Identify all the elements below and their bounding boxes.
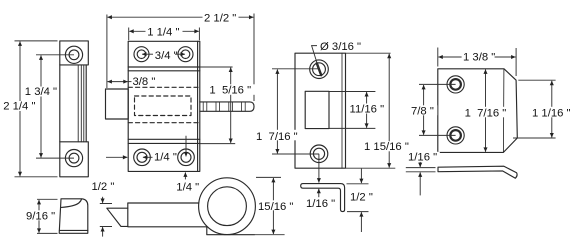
svg-text:1 5/16 ": 1 5/16 "	[209, 84, 251, 96]
label 7/8	[410, 105, 438, 115]
C wedge outline	[59, 199, 88, 234]
label 1 3/8	[462, 52, 495, 62]
E rectangular bolt hole	[305, 91, 329, 128]
E top screw hole with slot	[310, 60, 329, 79]
svg-text:1 3/8 ": 1 3/8 "	[463, 51, 495, 63]
view C: wedge knob side view (bottom left)	[59, 199, 88, 234]
svg-text:9/16 ": 9/16 "	[26, 211, 55, 223]
D slide plate	[128, 203, 207, 227]
svg-text:1 3/4 ": 1 3/4 "	[25, 86, 57, 98]
label 1/2 bracket	[349, 191, 373, 201]
dim 1 3/8 line	[438, 56, 515, 58]
svg-text:1/16 ": 1/16 "	[306, 198, 335, 210]
label 3/4	[154, 50, 176, 60]
B bottom plate divider (double line)	[128, 139, 200, 143]
D ring flat bottom	[207, 227, 255, 235]
label 1 7/16 right	[463, 107, 509, 118]
label 1 1/4	[146, 26, 183, 37]
view E: strike plate front view (middle right)	[295, 53, 346, 168]
F bracket outline	[301, 184, 345, 212]
dim 1 15/16 ext lines	[346, 53, 396, 168]
svg-text:1/16 ": 1/16 "	[408, 151, 437, 163]
C wedge face curve	[61, 199, 81, 208]
B right inner edge line	[197, 41, 199, 171]
dim 1 3/8 ext lines	[438, 48, 516, 77]
dim 1/2 (bracket) bottom ext	[347, 211, 369, 213]
B body outline	[128, 41, 200, 171]
label 3/8	[132, 77, 155, 87]
E plate outline	[295, 53, 346, 168]
dim Ø3/16 leader	[312, 46, 319, 69]
svg-text:3/8 ": 3/8 "	[133, 76, 156, 88]
dim 1/4 (bottom) inner arrow through hole	[185, 136, 187, 157]
dim 2 1/2 ext lines	[107, 14, 254, 102]
svg-text:7/8 ": 7/8 "	[411, 106, 434, 118]
G thin keeper bar side view	[438, 166, 517, 178]
B hidden channel dashed lines	[128, 86, 200, 88]
dim 1/4 (edge to hole) outer arrow	[106, 156, 127, 158]
B top-right screw hole	[178, 47, 193, 62]
svg-text:1 15/16 ": 1 15/16 "	[364, 141, 409, 153]
dim 2 1/4 line	[19, 42, 21, 177]
B bottom-left screw hole	[134, 149, 151, 166]
dim 3/8 line	[108, 81, 128, 83]
dim 1 15/16 line	[388, 54, 390, 168]
svg-text:3/4 ": 3/4 "	[155, 50, 178, 62]
label 1/16 bar	[407, 152, 440, 162]
svg-text:1/4 ": 1/4 "	[176, 182, 199, 194]
label 1/2 bolt	[90, 181, 114, 191]
dim 15/16 line	[272, 178, 274, 234]
B bolt knurl ticks	[203, 102, 245, 111]
G plate outline	[438, 69, 518, 153]
C wedge base line	[59, 229, 87, 231]
label 1 5/16	[208, 84, 255, 95]
svg-text:1 1/16 ": 1 1/16 "	[532, 107, 571, 119]
dim 1/2 (bracket) top ext	[347, 183, 369, 185]
dim 7/8 leaders	[419, 84, 456, 135]
label 1 15/16	[363, 141, 412, 151]
G plate bend line	[502, 69, 505, 152]
view G: keeper plate 3D view (far right)	[438, 69, 518, 178]
label 2 1/4	[2, 101, 37, 111]
dim 9/16 line	[38, 200, 40, 233]
svg-text:2 1/4 ": 2 1/4 "	[3, 101, 35, 113]
A bottom screw hole	[65, 150, 82, 167]
dim 11/16 ext lines	[330, 92, 376, 129]
B hidden slide dashed rectangle	[135, 96, 192, 116]
dim 1 3/4 leaders	[36, 55, 74, 158]
dim 1 1/16 ext lines	[513, 80, 556, 138]
dim 2 1/4 ext lines	[15, 41, 58, 177]
A bottom block top edge	[60, 141, 86, 143]
dim 2 1/2 line	[108, 16, 254, 18]
label 1/16 bracket	[305, 198, 335, 208]
svg-text:11/16 ": 11/16 "	[350, 103, 385, 115]
A channel line 2	[80, 65, 82, 142]
dim 1/16 (bar) arrows	[419, 162, 421, 167]
dim 1/4 (edge to hole) inner arrow	[143, 156, 153, 158]
view F: angle bracket keeper (below strike plate)	[301, 184, 345, 212]
G top hole	[447, 76, 464, 93]
dim 11/16 line	[366, 92, 368, 128]
dim 1 5/16 leaders	[200, 67, 235, 144]
dim 1/2 (bolt) arrows	[102, 197, 104, 203]
label 1 1/16	[531, 107, 574, 118]
E plate bend line	[341, 53, 343, 168]
dim 1/16 (bracket) lower arrow	[318, 189, 320, 197]
dim 3/4 arrows to top holes	[142, 53, 153, 55]
A top screw hole	[65, 46, 82, 63]
view D: bolt slide side view with ring (bottom middle)	[107, 178, 256, 235]
view A: side elevation of latch body (left bar)	[60, 41, 89, 177]
svg-text:15/16 ": 15/16 "	[258, 201, 293, 213]
D chisel rod tip	[107, 208, 128, 226]
view B: front view of latch body	[106, 41, 255, 171]
dim 1/2 (bracket) upper arrow	[360, 169, 362, 184]
label 1/4 mid	[153, 152, 176, 162]
dim 1 1/4 ext lines	[129, 28, 200, 41]
svg-text:1/4 ": 1/4 "	[154, 151, 177, 163]
B bolt (right, knurled)	[200, 102, 254, 111]
A top block bottom edge	[60, 64, 86, 66]
dim 9/16 ext lines	[37, 199, 58, 233]
B top plate divider (double line)	[128, 67, 200, 71]
svg-text:2 1/2 ": 2 1/2 "	[204, 12, 236, 24]
dim 1 7/16 (plate) line	[276, 69, 278, 153]
dim 1/16 (bracket) upper arrow from plate	[318, 154, 320, 183]
dim 1/4 (bottom) outer arrow	[184, 172, 186, 179]
E bottom screw hole	[310, 145, 328, 163]
label 2 1/2	[203, 12, 239, 22]
label 15/16	[257, 200, 293, 210]
svg-text:1 1/4 ": 1 1/4 "	[147, 26, 179, 38]
svg-text:Ø 3/16 ": Ø 3/16 "	[320, 41, 361, 53]
dim 1 7/16 (plate) leaders	[272, 69, 319, 154]
svg-text:1 7/16 ": 1 7/16 "	[465, 108, 507, 120]
B left bolt tail block	[106, 89, 129, 119]
G bottom hole	[447, 127, 464, 144]
D ring outer	[199, 178, 256, 235]
dim 7/8 line	[423, 85, 425, 135]
label 1 7/16 plate	[255, 130, 301, 141]
A body outline	[60, 41, 89, 177]
label 11/16	[348, 104, 385, 114]
dim 1 7/16 (right) line	[485, 69, 487, 151]
dim 1 1/16 line	[551, 81, 553, 138]
dim 15/16 ext lines	[254, 177, 284, 234]
label 1/4 bottom	[175, 183, 197, 193]
dim 1/2 (bolt) ext lines	[100, 204, 112, 227]
svg-text:1 7/16 ": 1 7/16 "	[256, 131, 298, 143]
dim 1/16 (bar) ext lines	[406, 168, 436, 172]
A channel line 1	[77, 65, 79, 142]
dim 1/2 (bracket) lower arrow	[360, 212, 362, 232]
A channel line 3	[83, 65, 85, 142]
label dia 3/16	[319, 40, 364, 51]
label 9/16	[25, 210, 56, 220]
svg-text:1/2 ": 1/2 "	[92, 181, 115, 193]
dim 1 1/4 line	[129, 30, 199, 32]
dim 1 5/16 line	[230, 68, 232, 143]
svg-text:1/2 ": 1/2 "	[350, 192, 373, 204]
D ring inner	[208, 187, 247, 226]
dim 1 3/4 line	[40, 55, 42, 157]
B top-left screw hole	[134, 47, 149, 62]
label 1 3/4	[24, 87, 59, 97]
B bottom-right screw hole	[178, 149, 195, 166]
